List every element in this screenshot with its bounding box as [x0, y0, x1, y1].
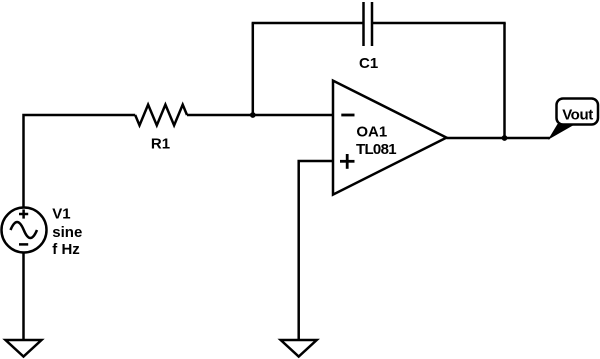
svg-text:TL081: TL081	[356, 141, 396, 158]
wire feedback left vertical	[252, 23, 255, 115]
svg-text:Vout: Vout	[562, 106, 593, 123]
op-amp non-inverting pin plus sign	[340, 154, 355, 169]
svg-text:C1: C1	[359, 55, 378, 72]
svg-text:V1: V1	[52, 206, 70, 223]
svg-text:f Hz: f Hz	[52, 241, 80, 258]
wire feedback top left segment	[252, 22, 364, 25]
wire from R1 to op-amp inverting input	[187, 114, 333, 117]
Vout label box	[557, 99, 599, 125]
V1 sine waveform	[11, 222, 38, 238]
ground symbol left	[6, 340, 42, 357]
V1 minus sign	[19, 243, 28, 246]
svg-text:OA1: OA1	[356, 124, 387, 141]
Vout label tail	[548, 124, 576, 140]
V1 plus sign	[19, 209, 28, 218]
ground symbol middle	[281, 340, 317, 357]
capacitor C1	[364, 2, 373, 46]
svg-text:R1: R1	[151, 136, 170, 153]
op-amp inverting pin minus sign	[341, 114, 354, 117]
wire op-amp output to Vout	[447, 137, 551, 140]
wire V1 bottom to ground	[22, 253, 25, 341]
resistor R1	[135, 105, 187, 126]
wire from V1 top to resistor R1	[24, 115, 136, 208]
node junction dot at output	[502, 135, 508, 141]
voltage source V1 circle	[2, 208, 47, 253]
node junction dot at inverting input	[250, 112, 256, 118]
wire feedback top right segment	[372, 22, 506, 25]
wire feedback right vertical	[503, 23, 506, 138]
wire op-amp non-inverting input to ground	[299, 161, 333, 340]
svg-text:sine: sine	[52, 224, 82, 241]
op-amp U1 OA1 triangle	[333, 81, 447, 195]
